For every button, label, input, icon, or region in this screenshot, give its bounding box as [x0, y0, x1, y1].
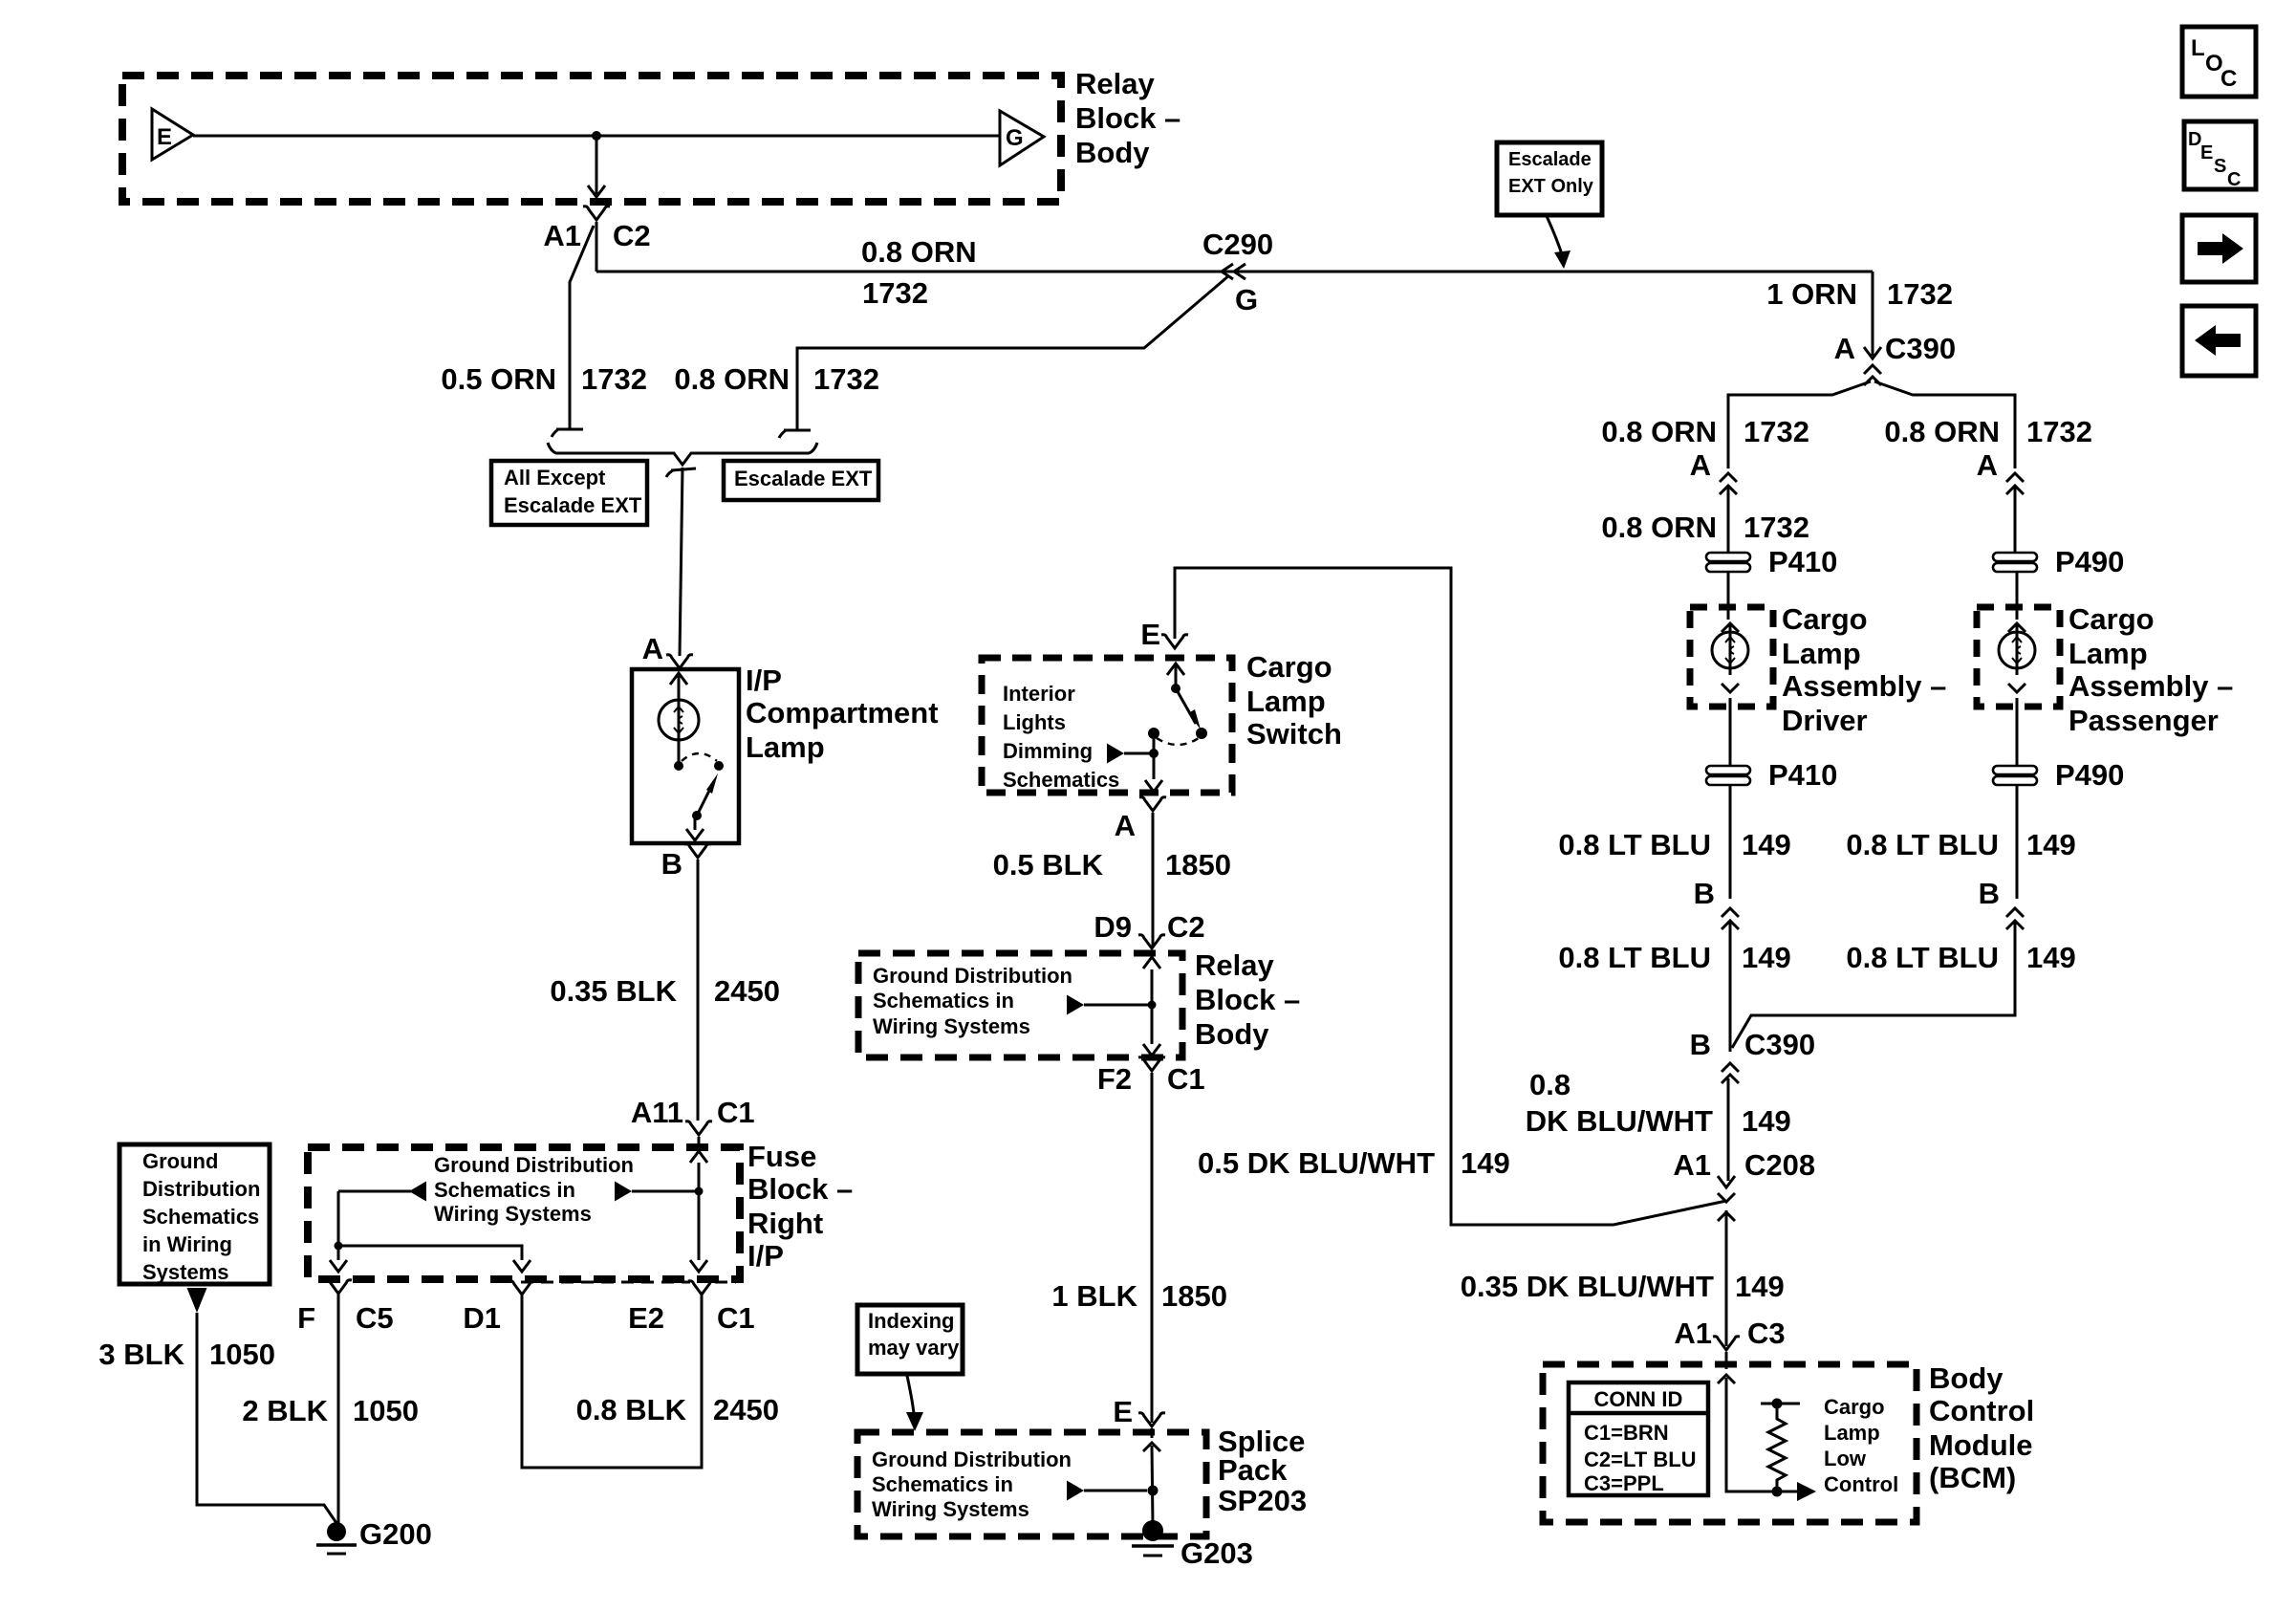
splice internal wire — [1143, 1443, 1160, 1451]
ground G200 — [327, 1522, 346, 1541]
wire driver 0.8 LT BLU — [1729, 786, 1732, 899]
fuse block junction dot (F/D1) — [335, 1242, 343, 1251]
svg-text:EXT Only: EXT Only — [1508, 176, 1594, 197]
svg-text:C1: C1 — [717, 1096, 755, 1129]
grommet P410 upper — [1706, 553, 1750, 561]
cargo lamp assembly passenger box (dashed) — [1977, 607, 2060, 707]
splice junction dot — [1148, 1486, 1159, 1496]
svg-text:Wiring Systems: Wiring Systems — [872, 1497, 1029, 1521]
box All Except Escalade EXT — [491, 461, 647, 525]
wire 0.8 ORN escalade ext branch — [797, 275, 1229, 430]
wire end 0.8 ORN (escalade EXT) — [784, 429, 811, 432]
connector E (splice pack) — [1138, 1413, 1165, 1426]
svg-text:F2: F2 — [1097, 1062, 1132, 1096]
fuse block F wire — [337, 1191, 340, 1260]
connector E (cargo switch) — [1161, 635, 1188, 648]
svg-text:Assembly –: Assembly – — [1782, 669, 1946, 703]
connector F2/C1 — [1138, 1057, 1165, 1071]
svg-text:Relay: Relay — [1195, 948, 1274, 982]
svg-text:Lamp: Lamp — [2069, 637, 2148, 670]
svg-text:0.8 LT BLU: 0.8 LT BLU — [1846, 828, 1999, 861]
svg-text:A: A — [1834, 332, 1855, 365]
wire 0.8 ORN to C290 (main feed) — [596, 271, 1873, 273]
svg-text:Control: Control — [1929, 1394, 2034, 1427]
BCM input chevron — [1718, 1375, 1735, 1383]
svg-text:0.8 ORN: 0.8 ORN — [1601, 415, 1717, 448]
connector A1/C3 — [1713, 1337, 1740, 1350]
svg-text:Cargo: Cargo — [1782, 602, 1868, 636]
svg-text:1 BLK: 1 BLK — [1051, 1279, 1137, 1313]
svg-text:1850: 1850 — [1165, 848, 1231, 882]
connector E2/C1 — [688, 1281, 715, 1295]
svg-text:Ground: Ground — [142, 1149, 218, 1173]
svg-text:Block –: Block – — [1195, 983, 1300, 1016]
svg-text:Driver: Driver — [1782, 704, 1868, 737]
wire passenger to P490 — [2014, 488, 2017, 553]
resistor top dot — [1772, 1399, 1783, 1409]
wire P490 to lamp box — [2016, 573, 2019, 620]
wire 0.8 BLK (D1-E2 loop) — [522, 1295, 702, 1468]
svg-text:A1: A1 — [1673, 1148, 1711, 1182]
relay block junction dot — [1148, 1001, 1157, 1010]
svg-text:0.8 LT BLU: 0.8 LT BLU — [1558, 828, 1711, 861]
connector A (cargo switch out) — [1139, 797, 1166, 811]
svg-text:Pack: Pack — [1218, 1453, 1288, 1487]
lamp contact dashed arc — [682, 753, 717, 761]
lamp alternate contact dot — [714, 761, 724, 771]
relay block - body lower (dashed outline) — [858, 953, 1182, 1057]
connector A11/C1 — [685, 1121, 712, 1135]
grommet P490 upper — [1993, 553, 2037, 561]
svg-text:1732: 1732 — [2026, 415, 2092, 448]
svg-text:I/P: I/P — [746, 664, 782, 697]
wire passenger lamp to P490 lower — [2016, 698, 2019, 766]
fuse block A11 wire — [698, 1163, 701, 1260]
wire brace stem to lamp — [680, 468, 682, 656]
svg-text:1732: 1732 — [862, 276, 928, 310]
switch dimming ref arrow — [1107, 744, 1124, 764]
svg-text:Wiring Systems: Wiring Systems — [873, 1014, 1030, 1038]
svg-text:1850: 1850 — [1161, 1279, 1227, 1313]
grommet P490 lower — [1993, 766, 2037, 774]
resistor bottom dot — [1772, 1487, 1783, 1497]
svg-text:C208: C208 — [1744, 1148, 1815, 1182]
wire E to G — [193, 135, 999, 138]
svg-text:F: F — [297, 1301, 315, 1335]
svg-text:0.8 ORN: 0.8 ORN — [861, 235, 977, 269]
svg-text:CONN ID: CONN ID — [1594, 1387, 1683, 1411]
wire C2 down — [596, 222, 598, 272]
svg-text:C5: C5 — [356, 1301, 394, 1335]
icon left arrow — [2195, 325, 2241, 356]
svg-text:Distribution: Distribution — [142, 1177, 260, 1201]
svg-text:G: G — [1235, 283, 1258, 316]
fuse block ref arrow left — [338, 1190, 411, 1193]
svg-text:Block –: Block – — [1075, 101, 1180, 135]
svg-text:Lamp: Lamp — [746, 730, 825, 764]
svg-text:Lights: Lights — [1003, 710, 1066, 734]
svg-text:Schematics in: Schematics in — [873, 989, 1014, 1012]
connector A1/C208 — [1718, 1176, 1735, 1187]
svg-text:A: A — [1115, 809, 1136, 842]
svg-text:0.35 BLK: 0.35 BLK — [550, 974, 677, 1008]
svg-text:E: E — [2200, 142, 2213, 163]
brace stem tick — [671, 468, 696, 470]
connector A (lamp) — [666, 655, 693, 668]
svg-text:0.5 BLK: 0.5 BLK — [993, 848, 1104, 882]
svg-text:Module: Module — [1929, 1428, 2033, 1462]
svg-text:Body: Body — [1929, 1361, 2004, 1395]
node junction dot on E-G wire — [592, 131, 601, 141]
switch output wire — [1153, 735, 1156, 779]
fuse block junction dot (A11) — [695, 1187, 704, 1196]
svg-text:Schematics: Schematics — [142, 1205, 259, 1229]
options brace — [548, 443, 817, 465]
wire driver to P410 — [1727, 488, 1730, 553]
box Indexing may vary — [857, 1305, 963, 1374]
svg-text:may vary: may vary — [868, 1336, 960, 1360]
svg-text:A: A — [1690, 448, 1711, 482]
svg-text:Schematics in: Schematics in — [872, 1472, 1013, 1496]
svg-text:Compartment: Compartment — [746, 696, 939, 729]
svg-text:P490: P490 — [2055, 545, 2124, 578]
arrowhead into connector A1 — [588, 185, 605, 197]
wire cargo switch feed loop — [1175, 568, 1726, 1225]
svg-text:Switch: Switch — [1246, 717, 1342, 751]
fuse block D1 link wire — [338, 1246, 522, 1260]
svg-text:B: B — [1694, 877, 1715, 910]
svg-text:E: E — [157, 124, 172, 150]
icon right arrow — [2198, 233, 2243, 264]
svg-text:Right: Right — [747, 1207, 823, 1240]
svg-text:1732: 1732 — [1744, 511, 1809, 544]
svg-text:Ground Distribution: Ground Distribution — [434, 1153, 634, 1177]
svg-text:L: L — [2191, 35, 2205, 61]
svg-text:Low: Low — [1824, 1447, 1867, 1470]
wire junction down to box edge — [596, 136, 598, 194]
svg-text:1732: 1732 — [581, 362, 647, 396]
BCM internal wire — [1726, 1378, 1772, 1491]
switch lever — [1176, 688, 1196, 724]
svg-text:Body: Body — [1075, 136, 1150, 169]
conn id table — [1569, 1382, 1708, 1495]
svg-text:1 ORN: 1 ORN — [1766, 277, 1857, 311]
svg-text:Schematics in: Schematics in — [434, 1178, 575, 1202]
svg-text:0.8: 0.8 — [1529, 1068, 1570, 1101]
svg-text:1732: 1732 — [813, 362, 879, 396]
svg-text:149: 149 — [1742, 828, 1791, 861]
svg-text:149: 149 — [1735, 1270, 1785, 1303]
svg-text:G: G — [1006, 125, 1024, 151]
svg-text:C1: C1 — [717, 1301, 755, 1335]
connector D9/C2 — [1138, 935, 1165, 948]
svg-text:149: 149 — [2026, 828, 2076, 861]
passenger lamp feed chevron — [2008, 623, 2025, 632]
connector B inline (driver) — [1722, 908, 1739, 917]
icon box left arrow — [2182, 306, 2256, 376]
svg-text:Systems: Systems — [142, 1260, 229, 1284]
connector D1 — [509, 1281, 535, 1295]
lamp fixed contact dot — [674, 761, 683, 771]
arrow below GDS box — [187, 1288, 207, 1313]
svg-text:E: E — [1113, 1395, 1133, 1428]
svg-text:All Except: All Except — [504, 466, 606, 490]
svg-text:P490: P490 — [2055, 758, 2124, 792]
svg-text:C2=LT BLU: C2=LT BLU — [1584, 1448, 1697, 1471]
fuse block ref arrow right — [615, 1182, 632, 1202]
driver lamp feed chevron — [1722, 623, 1739, 632]
resistor top tick — [1761, 1403, 1800, 1405]
bulb cargo lamp passenger — [1999, 632, 2035, 668]
fuse block - right I/P (dashed outline) — [308, 1147, 740, 1279]
svg-text:2 BLK: 2 BLK — [242, 1394, 328, 1427]
svg-text:Block –: Block – — [747, 1172, 853, 1206]
svg-text:0.8 ORN: 0.8 ORN — [1601, 511, 1717, 544]
wire 0.35 BLK — [697, 860, 700, 1121]
svg-text:0.35 DK BLU/WHT: 0.35 DK BLU/WHT — [1461, 1270, 1714, 1303]
icon box LOC — [2182, 27, 2256, 97]
svg-text:0.5 ORN: 0.5 ORN — [441, 362, 556, 396]
lamp internal wire to contact — [678, 740, 681, 764]
svg-text:P410: P410 — [1768, 758, 1837, 792]
svg-text:0.8 ORN: 0.8 ORN — [1884, 415, 2000, 448]
svg-text:Lamp: Lamp — [1782, 637, 1861, 670]
box Escalade EXT — [724, 461, 878, 500]
wire passenger 0.8 LT BLU — [2016, 786, 2019, 899]
lamp lever pivot dot — [692, 811, 702, 820]
svg-text:149: 149 — [1742, 941, 1791, 974]
svg-text:Cargo: Cargo — [2069, 602, 2155, 636]
svg-text:0.8 ORN: 0.8 ORN — [674, 362, 790, 396]
ground G203 — [1142, 1520, 1163, 1541]
svg-text:Wiring Systems: Wiring Systems — [434, 1202, 592, 1226]
svg-text:C390: C390 — [1885, 332, 1956, 365]
connector A1/C2 (relay block output) — [583, 207, 610, 220]
svg-text:1732: 1732 — [1887, 277, 1953, 311]
splice pack SP203 (dashed outline) — [857, 1432, 1206, 1536]
I/P compartment lamp box — [632, 669, 739, 843]
relay block internal wire — [1151, 969, 1154, 1044]
svg-text:P410: P410 — [1768, 545, 1837, 578]
svg-text:G203: G203 — [1180, 1536, 1253, 1570]
relay block - body (dashed outline) — [122, 76, 1061, 202]
svg-text:B: B — [661, 847, 682, 881]
cargo lamp switch box (dashed) — [982, 658, 1232, 793]
connector A inline (passenger) — [2006, 473, 2024, 482]
wire 2 BLK (F to G200) — [337, 1294, 340, 1524]
svg-text:C3=PPL: C3=PPL — [1584, 1471, 1664, 1495]
svg-text:Passenger: Passenger — [2069, 704, 2219, 737]
switch dashed arc — [1157, 738, 1199, 745]
icon box DESC — [2184, 121, 2256, 189]
svg-text:0.8 LT BLU: 0.8 LT BLU — [1558, 941, 1711, 974]
svg-text:Escalade EXT: Escalade EXT — [504, 493, 642, 517]
svg-text:D1: D1 — [463, 1301, 501, 1335]
bulb cargo lamp driver — [1712, 632, 1748, 668]
switch pivot dot (top) — [1171, 684, 1180, 693]
connector B (lamp) — [684, 844, 711, 858]
svg-text:Escalade: Escalade — [1508, 149, 1592, 170]
svg-text:(BCM): (BCM) — [1929, 1461, 2016, 1494]
svg-text:Schematics: Schematics — [1003, 768, 1119, 792]
svg-text:Assembly –: Assembly – — [2069, 669, 2233, 703]
svg-text:149: 149 — [2026, 941, 2076, 974]
wire into BCM — [1725, 1352, 1728, 1369]
svg-text:B: B — [1979, 877, 2000, 910]
grommet P410 lower — [1706, 766, 1750, 774]
svg-text:Dimming: Dimming — [1003, 739, 1093, 763]
driver lamp out chevron — [1722, 684, 1739, 692]
triangle G (output) — [1000, 111, 1044, 165]
svg-text:in Wiring: in Wiring — [142, 1232, 232, 1256]
svg-text:Cargo: Cargo — [1246, 650, 1332, 684]
svg-text:S: S — [2214, 156, 2226, 177]
svg-text:Interior: Interior — [1003, 682, 1075, 706]
wire C208 to BCM — [1725, 1210, 1728, 1346]
switch contact dot (moving) — [1196, 728, 1207, 739]
svg-text:Relay: Relay — [1075, 67, 1155, 100]
svg-text:C: C — [2227, 169, 2241, 190]
passenger lamp out chevron — [2008, 684, 2025, 692]
resistor cargo lamp low control — [1768, 1404, 1786, 1491]
wire 1 ORN down — [1872, 272, 1874, 356]
svg-text:0.5 DK BLU/WHT: 0.5 DK BLU/WHT — [1198, 1146, 1435, 1180]
svg-text:A: A — [1977, 448, 1998, 482]
box Escalade EXT Only — [1497, 142, 1602, 215]
svg-text:A1: A1 — [543, 219, 581, 252]
svg-text:A11: A11 — [631, 1096, 683, 1129]
svg-text:C390: C390 — [1744, 1028, 1815, 1061]
switch dimming junction dot — [1149, 749, 1159, 758]
svg-text:2450: 2450 — [713, 1393, 779, 1426]
arrow from Escalade EXT Only box — [1547, 216, 1562, 254]
second connector face dashes — [521, 1281, 736, 1284]
svg-text:C1: C1 — [1167, 1062, 1205, 1096]
svg-text:A: A — [642, 632, 663, 665]
svg-text:C3: C3 — [1747, 1317, 1786, 1350]
wire 1 BLK — [1151, 1073, 1154, 1423]
svg-text:SP203: SP203 — [1218, 1484, 1307, 1517]
wire E into splice pack — [1151, 1428, 1154, 1438]
svg-text:DK BLU/WHT: DK BLU/WHT — [1526, 1104, 1713, 1138]
svg-text:149: 149 — [1461, 1146, 1510, 1180]
body control module box (dashed) — [1543, 1364, 1917, 1522]
BCM output arrow — [1777, 1491, 1797, 1493]
svg-text:Control: Control — [1824, 1472, 1898, 1496]
icon box right arrow — [2182, 215, 2256, 282]
svg-text:A1: A1 — [1674, 1317, 1712, 1350]
svg-text:Ground Distribution: Ground Distribution — [873, 964, 1072, 988]
splice ref arrow — [1067, 1481, 1084, 1501]
svg-text:Cargo: Cargo — [1824, 1395, 1885, 1419]
lamp output wire + arrow — [694, 817, 697, 830]
svg-text:2450: 2450 — [714, 974, 780, 1008]
switch feed arrow — [1167, 664, 1184, 675]
svg-text:I/P: I/P — [747, 1239, 784, 1273]
wire A11 into fuse block — [698, 1137, 701, 1149]
connector F/C5 — [325, 1280, 352, 1294]
svg-text:0.8 BLK: 0.8 BLK — [576, 1393, 687, 1426]
wire 0.5 BLK — [1152, 813, 1155, 947]
svg-text:C: C — [2220, 66, 2237, 92]
svg-text:Lamp: Lamp — [1824, 1421, 1880, 1445]
svg-text:C2: C2 — [1167, 910, 1205, 944]
svg-text:Ground Distribution: Ground Distribution — [872, 1448, 1072, 1471]
svg-text:E2: E2 — [628, 1301, 664, 1335]
svg-text:D9: D9 — [1094, 910, 1132, 944]
svg-text:E: E — [1140, 618, 1160, 651]
svg-text:1050: 1050 — [353, 1394, 419, 1427]
connector C390 (double chevron) — [1864, 365, 1881, 374]
connector A inline (driver) — [1720, 473, 1737, 482]
svg-text:Body: Body — [1195, 1017, 1269, 1051]
lamp feed arrow inside box — [670, 673, 687, 685]
lamp switch lever — [697, 781, 714, 816]
svg-text:3 BLK: 3 BLK — [98, 1338, 184, 1371]
wire driver B to C390 — [1729, 923, 1732, 1052]
svg-text:149: 149 — [1742, 1104, 1791, 1138]
svg-text:G200: G200 — [359, 1517, 432, 1551]
svg-text:Fuse: Fuse — [747, 1140, 816, 1173]
svg-text:Escalade EXT: Escalade EXT — [734, 467, 873, 490]
svg-text:Lamp: Lamp — [1246, 685, 1326, 718]
bulb I/P compartment lamp — [659, 700, 699, 740]
svg-text:Indexing: Indexing — [868, 1309, 954, 1333]
wire passenger return — [1732, 923, 2015, 1048]
connector B/C390 — [1722, 1063, 1739, 1072]
connector C290 chevrons — [1222, 264, 1233, 279]
wire 0.8 DK BLU/WHT — [1727, 1078, 1730, 1181]
wire C390 split — [1728, 381, 1871, 468]
connector B inline (passenger) — [2006, 908, 2024, 917]
wire P410 to lamp box — [1727, 573, 1730, 620]
triangle E (input) — [152, 109, 193, 160]
wire 0.5 ORN branch (diagonal+vertical) — [570, 226, 594, 429]
svg-text:B: B — [1690, 1028, 1711, 1061]
svg-text:1732: 1732 — [1744, 415, 1809, 448]
svg-text:C290: C290 — [1202, 228, 1273, 261]
switch contact dot (fixed) — [1148, 728, 1159, 739]
svg-text:1050: 1050 — [209, 1338, 275, 1371]
cargo lamp assembly driver box (dashed) — [1690, 607, 1773, 707]
wire driver lamp to P410 lower — [1729, 698, 1732, 766]
relay block ref arrow — [1067, 995, 1084, 1015]
arrow from indexing box — [907, 1376, 914, 1413]
wire end 0.5 ORN (all except EXT) — [556, 428, 583, 431]
svg-text:C2: C2 — [613, 219, 651, 252]
wire 3 BLK — [197, 1313, 336, 1523]
ground distribution schematics box (solid) — [119, 1144, 270, 1284]
svg-text:0.8 LT BLU: 0.8 LT BLU — [1846, 941, 1999, 974]
svg-text:C1=BRN: C1=BRN — [1584, 1421, 1669, 1445]
